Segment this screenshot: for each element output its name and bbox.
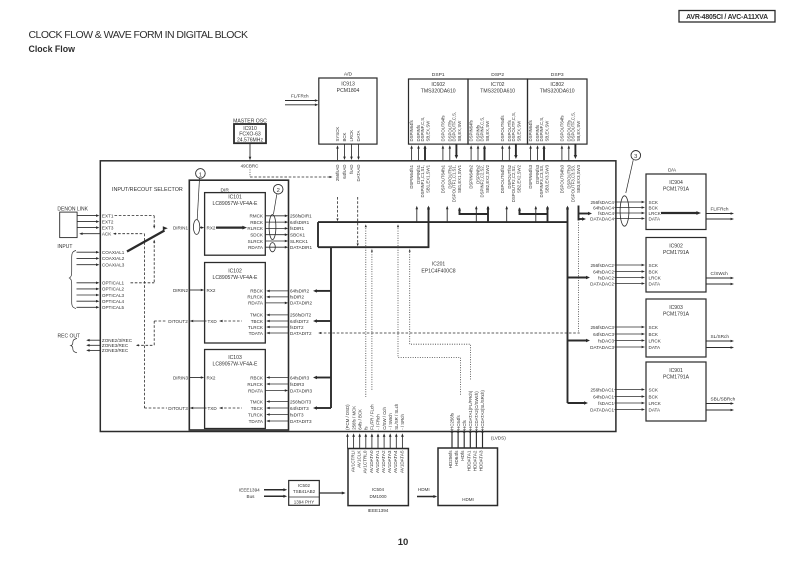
svg-text:ACK: ACK <box>102 232 111 237</box>
svg-text:64fsDAC2: 64fsDAC2 <box>593 269 614 274</box>
DSP1 IC602 TMS320DA610 <box>409 79 469 144</box>
svg-text:HD64fs: HD64fs <box>454 450 459 466</box>
svg-text:TXD: TXD <box>208 319 218 324</box>
rec out brace <box>71 339 77 353</box>
input/recout selector box <box>189 180 288 430</box>
svg-text:DSPINF,C,S,: DSPINF,C,S, <box>420 117 425 142</box>
svg-text:SB,EX,SW: SB,EX,SW <box>516 120 521 142</box>
svg-text:3: 3 <box>634 154 637 160</box>
DIR IC102 LC89057W-VF4A-E <box>205 263 266 344</box>
svg-text:64fsDIR2: 64fsDIR2 <box>290 289 310 294</box>
dashed selector vertical <box>143 234 145 408</box>
dashed DITOUT3 route <box>144 407 167 409</box>
svg-text:DATA: DATA <box>649 216 662 221</box>
svg-text:256fsAD: 256fsAD <box>335 165 340 182</box>
svg-text:SBL/SBRch: SBL/SBRch <box>711 397 736 402</box>
svg-text:IC201: IC201 <box>432 262 446 268</box>
svg-text:AV1CTRL0: AV1CTRL0 <box>363 450 368 473</box>
IEEE1394 link IC504 DM1000 <box>348 449 408 506</box>
svg-text:(PCM / DSD): (PCM / DSD) <box>345 404 350 430</box>
wire PHY to DM1000 <box>319 492 344 494</box>
svg-text:IEEE1394: IEEE1394 <box>368 508 389 513</box>
svg-text:SBCK1: SBCK1 <box>290 233 306 238</box>
svg-text:Clock Flow: Clock Flow <box>29 44 76 54</box>
svg-text:DATADIT3: DATADIT3 <box>290 419 312 424</box>
svg-text:DSPIN64fs: DSPIN64fs <box>528 120 533 141</box>
svg-text:RBCK: RBCK <box>250 375 264 380</box>
svg-text:LRCK: LRCK <box>649 211 662 216</box>
svg-text:SL/SR / SLch: SL/SR / SLch <box>394 403 399 430</box>
svg-text:IC903: IC903 <box>669 305 683 311</box>
svg-text:DSPOUT64fs: DSPOUT64fs <box>560 115 565 141</box>
thick riser DSPIN2 feed <box>487 207 489 222</box>
svg-text:AV1DATA4: AV1DATA4 <box>393 450 398 473</box>
svg-text:64fsDAC4: 64fsDAC4 <box>593 205 614 210</box>
svg-text:256fsDIR1: 256fsDIR1 <box>290 214 312 219</box>
zone rec out wires <box>88 339 100 341</box>
bold selected-input arrow <box>127 231 165 252</box>
svg-text:BCK: BCK <box>342 132 347 141</box>
dashed ACK route <box>114 233 145 235</box>
svg-text:OPTICAL5: OPTICAL5 <box>102 305 125 310</box>
svg-text:HCDATA1(FL/FRch): HCDATA1(FL/FRch) <box>468 390 473 430</box>
svg-text:AVR-4805CI / AVC-A11XVA: AVR-4805CI / AVC-A11XVA <box>686 14 768 21</box>
svg-text:INPUT/RECOUT SELECTOR: INPUT/RECOUT SELECTOR <box>112 187 183 193</box>
wires HDMI to FPGA <box>451 432 453 448</box>
svg-text:C/SW / Cch: C/SW / Cch <box>382 407 387 430</box>
svg-text:EXT2: EXT2 <box>102 219 114 224</box>
svg-text:ZONE3/REC: ZONE3/REC <box>102 348 129 353</box>
riser DSPIN64fs1 <box>416 207 418 222</box>
svg-text:RLRCK: RLRCK <box>247 382 264 387</box>
svg-text:DATADAC1: DATADAC1 <box>590 407 614 412</box>
svg-text:AV1DATA0: AV1DATA0 <box>369 450 374 473</box>
svg-text:DSPIN64fs2: DSPIN64fs2 <box>469 164 474 188</box>
DSP3 pin wires to bus <box>530 147 532 161</box>
svg-text:fsDIR1: fsDIR1 <box>290 226 304 231</box>
svg-text:AV1CLK: AV1CLK <box>357 450 362 468</box>
svg-text:HCDATA2(C/SWch): HCDATA2(C/SWch) <box>474 391 479 430</box>
svg-text:SB2,EX2,SW2: SB2,EX2,SW2 <box>516 164 521 193</box>
dotted fs column down <box>365 226 367 397</box>
DENON LINK box <box>60 212 77 238</box>
thick riser DSPIN3 feed <box>547 207 549 222</box>
svg-text:HDMI: HDMI <box>418 487 430 492</box>
svg-text:fsDIR3: fsDIR3 <box>290 382 304 387</box>
svg-text:LRCK: LRCK <box>349 130 354 142</box>
svg-text:IC102: IC102 <box>228 268 242 274</box>
svg-text:DENON LINK: DENON LINK <box>57 207 88 213</box>
svg-text:49CBRC: 49CBRC <box>241 163 260 168</box>
svg-text:PCM1804: PCM1804 <box>337 88 360 94</box>
svg-text:LRCK: LRCK <box>649 401 662 406</box>
svg-text:DATAAD: DATAAD <box>356 165 361 182</box>
svg-text:IC504: IC504 <box>372 487 385 492</box>
svg-text:DSPOUT64fs1: DSPOUT64fs1 <box>441 164 446 193</box>
svg-text:LRCK: LRCK <box>649 275 662 280</box>
IC102 pin wires <box>267 290 289 292</box>
svg-text:RX2: RX2 <box>207 226 216 231</box>
svg-text:TMS320DA610: TMS320DA610 <box>480 89 515 95</box>
svg-text:SDCK: SDCK <box>250 233 264 238</box>
svg-text:IC101: IC101 <box>228 194 242 200</box>
svg-text:OPTICAL4: OPTICAL4 <box>102 299 125 304</box>
DAC4 data feed arrow <box>579 218 585 220</box>
svg-text:PCM1791A: PCM1791A <box>663 312 690 318</box>
svg-text:DATA: DATA <box>356 130 361 141</box>
thick DAC feed vertical <box>567 207 569 403</box>
svg-text:256fsDIT2: 256fsDIT2 <box>290 313 312 318</box>
riser DSPOUT64fs2 <box>506 207 508 222</box>
DAC1 fs feed arrow <box>568 402 587 404</box>
svg-text:HCfs: HCfs <box>462 419 467 429</box>
svg-text:256fs / MCK: 256fs / MCK <box>351 406 356 430</box>
svg-text:64fsDAC3: 64fsDAC3 <box>593 332 614 337</box>
svg-text:RX2: RX2 <box>207 376 216 381</box>
svg-text:PCM1791A: PCM1791A <box>663 375 690 381</box>
svg-text:SB,EX,SW: SB,EX,SW <box>485 120 490 142</box>
svg-text:SB1,EX1,SW1: SB1,EX1,SW1 <box>457 164 462 193</box>
svg-text:1394 PHY: 1394 PHY <box>294 499 315 504</box>
svg-text:DATADIR3: DATADIR3 <box>290 388 312 393</box>
svg-text:DSPOUTF3,C3,S3,: DSPOUTF3,C3,S3, <box>570 165 575 202</box>
svg-text:A/D: A/D <box>344 72 353 78</box>
svg-text:LC89057W-VF4A-E: LC89057W-VF4A-E <box>213 201 259 207</box>
svg-text:DSPIN64fs: DSPIN64fs <box>409 120 414 141</box>
svg-text:EXT3: EXT3 <box>102 225 114 230</box>
D/A IC902 PCM1791A <box>646 238 706 293</box>
svg-text:fsAD: fsAD <box>349 165 354 174</box>
svg-text:COAXIAL2: COAXIAL2 <box>102 256 125 261</box>
DSP2 IC702 TMS320DA610 <box>468 79 528 144</box>
svg-text:AV1CTRLI: AV1CTRLI <box>351 451 356 473</box>
wires FPGA to IEEE1394 DM1000 <box>347 437 349 449</box>
outer digital block box <box>100 161 616 432</box>
svg-text:BCK: BCK <box>649 205 659 210</box>
svg-text:64fsDIR3: 64fsDIR3 <box>290 375 310 380</box>
D/A IC901 PCM1791A <box>646 362 706 421</box>
svg-text:SB,EX,SW: SB,EX,SW <box>576 120 581 142</box>
svg-text:64fsDIT2: 64fsDIT2 <box>290 319 309 324</box>
svg-text:DIRIN1: DIRIN1 <box>173 225 189 230</box>
svg-text:TBCK: TBCK <box>251 406 264 411</box>
svg-text:IC802: IC802 <box>550 82 564 88</box>
D/A IC904 PCM1791A <box>646 174 706 230</box>
A/D pin wires <box>337 147 339 161</box>
1394 PHY IC502 TSB41AB2 <box>289 481 320 506</box>
bus line B DATADIR1 <box>318 246 429 248</box>
balloon 3 <box>620 196 629 226</box>
svg-text:IC913: IC913 <box>341 82 355 88</box>
svg-text:TMCK: TMCK <box>250 399 264 404</box>
svg-text:DSP3: DSP3 <box>551 72 564 78</box>
svg-text:FL/FRch: FL/FRch <box>291 93 309 98</box>
DIR IC103 LC89057W-VF4A-E <box>205 350 266 429</box>
svg-text:OPTICAL3: OPTICAL3 <box>102 293 125 298</box>
svg-text:SCK: SCK <box>649 200 659 205</box>
svg-text:RDATA: RDATA <box>248 301 264 306</box>
IC101 output wires <box>265 215 286 217</box>
svg-text:TLRCK: TLRCK <box>248 412 264 417</box>
svg-text:TXD: TXD <box>208 406 218 411</box>
svg-text:HC256fs: HC256fs <box>450 412 455 430</box>
svg-text:SB,EX,SW: SB,EX,SW <box>544 120 549 142</box>
svg-text:- / SRch: - / SRch <box>400 414 405 430</box>
DAC4 clock wires into IC904 <box>615 201 644 203</box>
dotted SL/SR route down <box>410 247 471 380</box>
svg-text:256fsDAC4: 256fsDAC4 <box>591 200 615 205</box>
svg-text:DSPINF1,C1,S1,: DSPINF1,C1,S1, <box>420 165 425 197</box>
DSP2 pin wires to bus <box>470 147 472 161</box>
svg-text:fsDAC1: fsDAC1 <box>598 401 614 406</box>
svg-text:DSPOUTF,C,S,: DSPOUTF,C,S, <box>570 112 575 142</box>
svg-text:HCDATA3(SL/SRch): HCDATA3(SL/SRch) <box>480 390 485 430</box>
svg-text:IC502: IC502 <box>298 483 311 488</box>
svg-text:SL/SRch: SL/SRch <box>711 334 730 339</box>
svg-text:AV1DATA5: AV1DATA5 <box>399 450 404 473</box>
svg-text:FL/FR / FLch: FL/FR / FLch <box>370 404 375 430</box>
svg-text:CLOCK FLOW & WAVE FORM IN DIGI: CLOCK FLOW & WAVE FORM IN DIGITAL BLOCK <box>29 29 248 41</box>
svg-text:24.576MHz: 24.576MHz <box>237 137 264 143</box>
svg-text:HDDATA3: HDDATA3 <box>479 450 484 471</box>
svg-text:SCK: SCK <box>649 387 659 392</box>
balloon 2 <box>269 215 276 240</box>
dashed OPTICAL1 select <box>131 282 155 284</box>
bold arrow RX2 to RLRCK <box>216 226 244 228</box>
svg-text:HDMI: HDMI <box>462 497 474 502</box>
EXT1-3 wires <box>77 215 98 217</box>
svg-text:PCM1791A: PCM1791A <box>663 250 690 256</box>
HDMI receiver box <box>438 448 498 506</box>
svg-text:- / SWch: - / SWch <box>388 413 393 430</box>
svg-text:DSPOUT64fs2: DSPOUT64fs2 <box>500 164 505 193</box>
feed arrow 64fsDIT2 <box>315 320 331 322</box>
DSP3 IC802 TMS320DA610 <box>528 79 588 144</box>
riser DSPOUT64fs1 <box>446 207 448 222</box>
svg-text:FL/FRch: FL/FRch <box>711 207 729 212</box>
svg-text:- / FRch: - / FRch <box>376 414 381 430</box>
D/A IC903 PCM1791A <box>646 299 706 357</box>
svg-text:SB2,EX2,SW2: SB2,EX2,SW2 <box>485 164 490 193</box>
svg-text:256fsDAC3: 256fsDAC3 <box>591 325 615 330</box>
svg-text:SB,EX,SW: SB,EX,SW <box>457 120 462 142</box>
svg-text:256fsDAC1: 256fsDAC1 <box>591 387 615 392</box>
svg-text:OPTICAL2: OPTICAL2 <box>102 287 125 292</box>
svg-text:DSPIN64fs1: DSPIN64fs1 <box>409 164 414 188</box>
svg-text:DSPOUT64fs: DSPOUT64fs <box>500 115 505 141</box>
svg-text:DSPIN64fs3: DSPIN64fs3 <box>528 164 533 188</box>
svg-text:IC602: IC602 <box>431 82 445 88</box>
riser DSPIN64fs3 <box>535 207 537 222</box>
svg-text:TMS320DA610: TMS320DA610 <box>540 89 575 95</box>
svg-text:fsDAC4: fsDAC4 <box>598 211 614 216</box>
svg-text:DSPOUT64fs: DSPOUT64fs <box>441 115 446 141</box>
svg-text:HC64fs: HC64fs <box>456 414 461 429</box>
svg-text:DATADIR2: DATADIR2 <box>290 301 312 306</box>
svg-text:TSB41AB2: TSB41AB2 <box>293 489 316 494</box>
A/D converter IC913 PCM1804 <box>319 78 377 144</box>
svg-text:LC89057W-VF4A-E: LC89057W-VF4A-E <box>213 275 259 281</box>
svg-text:DATADIT2: DATADIT2 <box>290 331 312 336</box>
svg-text:DATA: DATA <box>649 345 662 350</box>
staple DSP2 out to DSP3 in <box>520 209 548 215</box>
svg-text:TDATA: TDATA <box>249 419 264 424</box>
svg-text:DSPOUTF1,C1,S1,: DSPOUTF1,C1,S1, <box>451 165 456 202</box>
COAXIAL input wires <box>77 251 98 253</box>
DAC4 fs feed arrow <box>579 213 591 215</box>
svg-text:TMCK: TMCK <box>250 313 264 318</box>
svg-text:HDfs: HDfs <box>460 450 465 461</box>
svg-text:LC89057W-VF4A-E: LC89057W-VF4A-E <box>213 362 259 368</box>
dashed DITOUT2 to zone <box>154 320 167 322</box>
svg-text:DATADAC2: DATADAC2 <box>590 281 614 286</box>
svg-text:IC103: IC103 <box>228 355 242 361</box>
svg-text:RDATA: RDATA <box>248 388 264 393</box>
svg-text:SCK: SCK <box>649 263 659 268</box>
svg-text:DATA: DATA <box>649 281 662 286</box>
dashed DATADIT2 return line <box>320 332 580 334</box>
svg-text:DATADAC4: DATADAC4 <box>590 216 614 221</box>
svg-text:64fsAD: 64fsAD <box>342 165 347 179</box>
dashed optical select vertical <box>153 241 155 283</box>
dotted DSP3 out down-feed <box>578 223 580 334</box>
svg-text:IEEE1394: IEEE1394 <box>239 488 260 493</box>
svg-text:DATADAC3: DATADAC3 <box>590 345 614 350</box>
svg-text:256fsDIT3: 256fsDIT3 <box>290 399 312 404</box>
DSP3 output stub to DAC4 <box>578 206 580 221</box>
svg-text:RMCK: RMCK <box>249 214 263 219</box>
svg-text:fsDIT3: fsDIT3 <box>290 412 304 417</box>
DIR IC101 LC89057W-VF4A-E <box>205 193 266 256</box>
svg-text:1: 1 <box>199 172 202 178</box>
wire master osc to digital block <box>249 143 251 159</box>
ACK wire <box>81 233 100 235</box>
svg-text:DATA: DATA <box>649 407 662 412</box>
svg-text:PCM1791A: PCM1791A <box>663 187 690 193</box>
svg-text:64fs / BCK: 64fs / BCK <box>357 409 362 430</box>
svg-text:BCK: BCK <box>649 269 659 274</box>
svg-text:fsDIT2: fsDIT2 <box>290 325 304 330</box>
svg-text:OPTICAL1: OPTICAL1 <box>102 281 125 286</box>
svg-text:DSPINF3,C3,S3,: DSPINF3,C3,S3, <box>539 165 544 197</box>
svg-text:DATADIR1: DATADIR1 <box>290 245 312 250</box>
svg-text:DM1000: DM1000 <box>369 494 387 499</box>
dashed 49CBRC feed to AD labels <box>249 170 251 178</box>
svg-text:RDATA: RDATA <box>248 245 264 250</box>
svg-text:SB,EX,SW: SB,EX,SW <box>425 120 430 142</box>
svg-text:DSPOUTF2,C2,S2,: DSPOUTF2,C2,S2, <box>511 165 516 202</box>
dotted FL/FR column down <box>371 247 373 391</box>
svg-text:RX2: RX2 <box>207 288 216 293</box>
DAC1 clock wires into IC901 <box>615 389 644 391</box>
feed arrow 64fsDIT3 <box>315 407 331 409</box>
dashed EXT1 select <box>115 215 155 217</box>
svg-text:AV1DATA3: AV1DATA3 <box>387 450 392 473</box>
svg-text:DSPINF,C,S,: DSPINF,C,S, <box>539 117 544 142</box>
svg-text:DSPINF2,C2,S2,: DSPINF2,C2,S2, <box>479 165 484 197</box>
svg-text:DSPIN64fs: DSPIN64fs <box>469 120 474 141</box>
svg-text:RBCK: RBCK <box>250 220 264 225</box>
svg-text:DITOUT2: DITOUT2 <box>168 319 188 324</box>
svg-text:DSP1: DSP1 <box>432 72 445 78</box>
DAC3 fs feed arrow <box>568 340 589 342</box>
svg-text:DSPOUTF,C,S,: DSPOUTF,C,S, <box>451 112 456 142</box>
svg-text:BCK: BCK <box>649 394 659 399</box>
svg-text:COAXIAL1: COAXIAL1 <box>102 250 125 255</box>
svg-text:C/SWch: C/SWch <box>711 271 729 276</box>
svg-text:fsDAC3: fsDAC3 <box>598 338 614 343</box>
svg-text:RBCK: RBCK <box>250 289 264 294</box>
staple DSP1 out to DSP2 in <box>460 209 489 215</box>
model number box <box>679 11 775 23</box>
dashed DATAAD down to bus B <box>357 197 359 245</box>
svg-text:TDATA: TDATA <box>249 331 264 336</box>
svg-text:COAXIAL3: COAXIAL3 <box>102 263 125 268</box>
svg-text:HD256fs: HD256fs <box>448 450 453 469</box>
OPTICAL input wires <box>77 282 98 284</box>
feed arrow 64fsDIR3 <box>315 377 331 379</box>
svg-text:64fsDAC1: 64fsDAC1 <box>593 394 614 399</box>
IC103 pin wires <box>267 377 289 379</box>
svg-text:fsDAC2: fsDAC2 <box>598 275 614 280</box>
svg-text:64fsDIR1: 64fsDIR1 <box>290 220 310 225</box>
bus line A 64fsDIR1 <box>318 221 568 223</box>
svg-text:DSPINF,C,S,: DSPINF,C,S, <box>479 117 484 142</box>
svg-text:DSPOUTF,C,S,: DSPOUTF,C,S, <box>511 112 516 142</box>
svg-text:64fsDIT3: 64fsDIT3 <box>290 406 309 411</box>
svg-text:256fsDAC2: 256fsDAC2 <box>591 263 615 268</box>
svg-text:BCK: BCK <box>649 332 659 337</box>
svg-text:AV1DATA2: AV1DATA2 <box>381 450 386 473</box>
svg-text:SLRCK: SLRCK <box>248 239 264 244</box>
bold arrow inside IC904 <box>661 212 698 214</box>
svg-text:SYSCK: SYSCK <box>335 127 340 142</box>
HDMI input wire <box>417 496 435 498</box>
svg-text:DSPOUT64fs3: DSPOUT64fs3 <box>560 164 565 193</box>
svg-text:TMS320DA610: TMS320DA610 <box>421 89 456 95</box>
DSP1 pin wires to bus <box>411 147 413 161</box>
svg-text:RLRCK: RLRCK <box>247 295 264 300</box>
svg-text:SCK: SCK <box>649 325 659 330</box>
DAC3 clock wires into IC903 <box>615 326 644 328</box>
svg-text:INPUT: INPUT <box>57 244 72 250</box>
DAC2 fs feed arrow <box>568 277 589 279</box>
svg-text:LRCK: LRCK <box>649 338 662 343</box>
svg-text:RLRCK: RLRCK <box>247 226 264 231</box>
svg-text:EXT1: EXT1 <box>102 213 114 218</box>
svg-text:fsDIR2: fsDIR2 <box>290 295 304 300</box>
DAC2 clock wires into IC902 <box>615 264 644 266</box>
svg-text:SB1,EX1,SW1: SB1,EX1,SW1 <box>425 164 430 193</box>
svg-text:SB3,EX3,SW3: SB3,EX3,SW3 <box>544 164 549 193</box>
svg-text:SB3,EX3,SW3: SB3,EX3,SW3 <box>576 164 581 193</box>
svg-text:IC702: IC702 <box>491 82 505 88</box>
dashed 256fsAD down to bus A <box>337 197 339 220</box>
svg-text:DIRIN2: DIRIN2 <box>173 288 189 293</box>
svg-text:DITOUT3: DITOUT3 <box>168 406 188 411</box>
svg-text:TLRCK: TLRCK <box>248 325 264 330</box>
svg-text:Bus: Bus <box>247 494 256 499</box>
svg-text:SLRCK1: SLRCK1 <box>290 239 308 244</box>
IEEE1394 bus wires <box>264 489 285 491</box>
svg-text:DSP2: DSP2 <box>491 72 504 78</box>
svg-text:2: 2 <box>277 188 280 194</box>
svg-text:DIRIN3: DIRIN3 <box>173 375 189 380</box>
svg-text:D/A: D/A <box>668 168 677 174</box>
svg-text:HDDATA2: HDDATA2 <box>472 450 477 471</box>
svg-text:IC904: IC904 <box>669 180 683 186</box>
balloon 1 <box>193 220 199 235</box>
